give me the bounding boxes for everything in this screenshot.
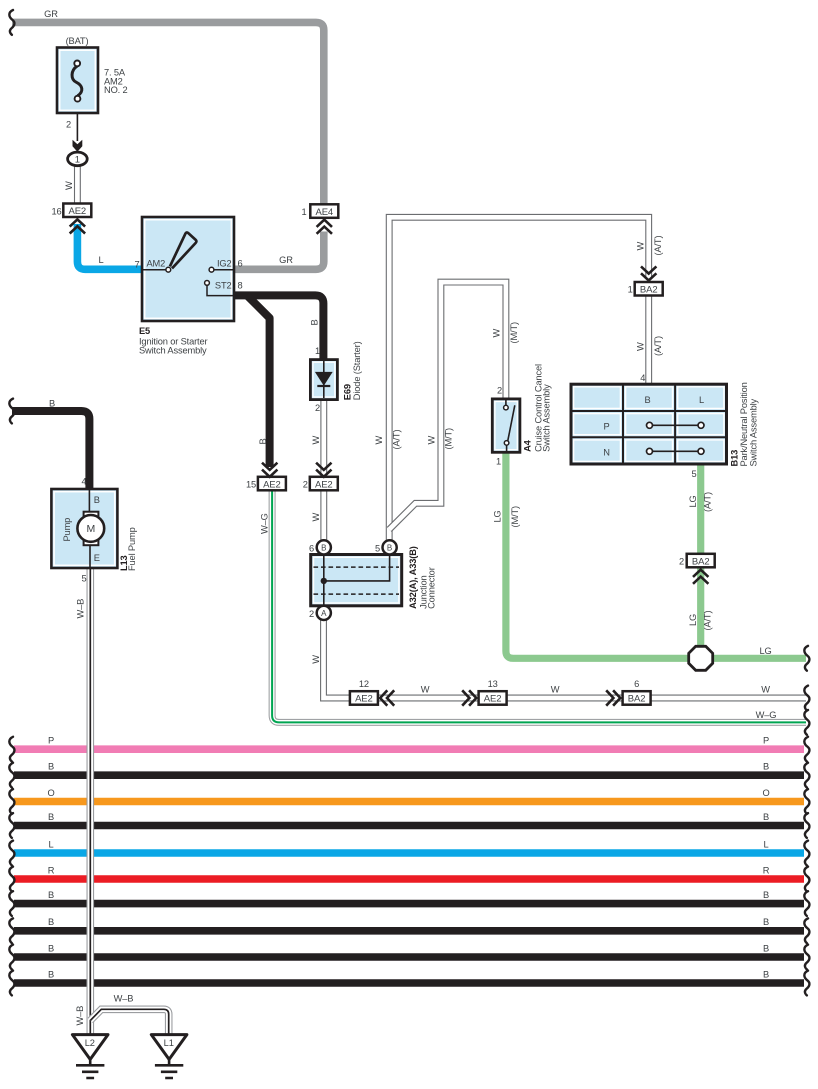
svg-text:B13: B13 <box>729 450 739 467</box>
svg-text:LG: LG <box>492 510 502 522</box>
switch A4 cruise control cancel box <box>492 399 520 452</box>
svg-text:W: W <box>761 685 770 695</box>
breaks bus B9 <box>9 945 14 970</box>
svg-text:LG: LG <box>688 495 698 507</box>
svg-text:P: P <box>603 422 609 432</box>
svg-text:1: 1 <box>301 207 306 217</box>
svg-text:15: 15 <box>246 479 256 489</box>
connector AE2 pin13 <box>479 691 507 705</box>
chevron down above AE2-15 <box>262 463 277 477</box>
svg-text:B: B <box>310 319 320 325</box>
chevron right left of BA2-6 <box>606 690 620 705</box>
wire W diode to AE2-2 <box>320 400 327 476</box>
chevron left right of AE2-12 <box>380 690 394 705</box>
chevron down above BA2-1 <box>641 266 656 280</box>
svg-text:4: 4 <box>640 373 645 383</box>
connector BA2 pin2 <box>687 554 715 568</box>
wire B thick fuel pump <box>12 411 89 490</box>
svg-text:ST2: ST2 <box>215 281 232 291</box>
svg-text:W–B: W–B <box>114 994 134 1004</box>
breaks bus R <box>9 867 14 892</box>
svg-text:BA2: BA2 <box>692 556 710 567</box>
A32 pin circle A2 <box>317 606 331 620</box>
svg-text:2: 2 <box>303 479 308 489</box>
svg-text:1: 1 <box>496 457 501 467</box>
svg-text:B: B <box>94 495 100 505</box>
bus wire O (orange) <box>14 798 804 806</box>
svg-text:(A/T): (A/T) <box>653 236 663 256</box>
junction connector A32(A) A33(B) box <box>311 555 402 606</box>
svg-text:L1: L1 <box>164 1038 174 1048</box>
wire GR from AE4 to E5 IG2 <box>234 232 324 270</box>
wire W (A/T) loop junction A32 pin5 to BA2-1 <box>389 217 649 547</box>
svg-text:B: B <box>258 438 268 444</box>
svg-text:B: B <box>48 969 54 979</box>
svg-text:W: W <box>635 242 645 251</box>
svg-text:8: 8 <box>238 281 243 291</box>
svg-text:AM2: AM2 <box>147 259 166 269</box>
svg-text:W: W <box>374 436 384 445</box>
svg-text:E5: E5 <box>139 326 150 336</box>
svg-text:O: O <box>47 788 54 798</box>
A4 switch contacts <box>505 399 507 405</box>
diode E69 box <box>310 360 337 400</box>
node 1 ellipse <box>68 152 88 166</box>
wire L (blue) AE2-16 to E5 AM2 <box>77 224 142 269</box>
wire W fuse to AE2-16 <box>74 165 81 204</box>
ground L2 triangle <box>72 1035 108 1060</box>
svg-text:5: 5 <box>691 469 696 479</box>
connector AE2 pin2 <box>310 477 338 491</box>
breaks bus B2 <box>9 763 14 788</box>
svg-text:R: R <box>48 865 55 875</box>
svg-text:W: W <box>635 342 645 351</box>
E5 ST2 contact and pin line <box>205 281 210 286</box>
svg-text:B: B <box>48 917 54 927</box>
bus wire B (black) row4 <box>14 822 804 830</box>
svg-text:O: O <box>762 788 769 798</box>
wire W-B branch to ground L1 <box>90 1009 168 1035</box>
svg-text:BA2: BA2 <box>628 694 646 705</box>
wire W (M/T) loop to A4 pin2 <box>389 282 506 529</box>
svg-text:AE4: AE4 <box>315 207 333 218</box>
svg-text:B: B <box>321 543 326 552</box>
svg-text:(A/T): (A/T) <box>653 336 663 356</box>
break LG right <box>804 646 809 671</box>
node octagon junction <box>689 646 713 670</box>
svg-text:AE2: AE2 <box>68 206 86 217</box>
svg-text:AE2: AE2 <box>355 694 373 705</box>
svg-text:6: 6 <box>309 543 314 553</box>
svg-text:2: 2 <box>497 386 502 396</box>
svg-text:W: W <box>311 513 321 522</box>
svg-text:B: B <box>763 890 769 900</box>
svg-text:2: 2 <box>679 556 684 566</box>
connector AE4 pin1 <box>310 204 338 218</box>
svg-text:A: A <box>321 609 327 618</box>
svg-text:Fuel Pump: Fuel Pump <box>127 527 137 571</box>
wire B thick E5 ST2 to diode E69 <box>234 295 323 361</box>
svg-text:Connector: Connector <box>426 567 436 609</box>
svg-text:L2: L2 <box>85 1038 95 1048</box>
A32 dashed internal rows <box>314 566 400 568</box>
svg-text:R: R <box>763 865 770 875</box>
connector AE2 pin16 <box>63 204 91 218</box>
break B fuel pump left <box>9 399 14 424</box>
L13 motor brush caps <box>84 512 99 519</box>
svg-text:Switch Assembly: Switch Assembly <box>139 346 207 356</box>
connector AE2 pin12 <box>350 691 378 705</box>
wire LG BA2-2 to octagon node <box>697 567 704 650</box>
svg-text:Pump: Pump <box>62 518 72 542</box>
svg-text:W–G: W–G <box>260 513 270 534</box>
wire GR main (top) <box>12 22 324 205</box>
svg-text:Diode (Starter): Diode (Starter) <box>352 341 362 400</box>
svg-text:P: P <box>763 736 769 746</box>
svg-text:5: 5 <box>81 574 86 584</box>
svg-text:4: 4 <box>81 477 86 487</box>
bus wire B (black) row10 <box>14 979 804 987</box>
breaks bus B8 <box>9 918 14 943</box>
svg-text:1: 1 <box>628 285 633 295</box>
wire W junction A32 pin2 to AE2-12 and bus <box>324 619 807 698</box>
breaks bus O <box>9 789 14 814</box>
svg-text:E69: E69 <box>342 384 352 400</box>
svg-text:GR: GR <box>44 9 58 19</box>
svg-text:B: B <box>48 812 54 822</box>
B13 contact row P <box>653 424 699 426</box>
connector AE2 pin15 <box>258 477 286 491</box>
svg-text:Switch Assembly: Switch Assembly <box>749 398 759 466</box>
svg-text:13: 13 <box>488 679 498 689</box>
svg-text:P: P <box>48 736 54 746</box>
svg-text:L: L <box>98 255 103 265</box>
svg-text:E: E <box>94 553 100 563</box>
svg-text:W–B: W–B <box>76 599 86 619</box>
svg-text:AE2: AE2 <box>484 694 502 705</box>
wire W-G AE2-15 to bus <box>272 490 806 722</box>
svg-text:16: 16 <box>51 207 61 217</box>
breaks bus P left right <box>9 737 14 762</box>
A32 pin circle B6 <box>317 540 331 554</box>
chevron right left of AE2-13 <box>462 690 476 705</box>
svg-text:W: W <box>421 685 430 695</box>
svg-text:6: 6 <box>238 259 243 269</box>
ground L1 triangle <box>151 1035 187 1060</box>
break W-G bus right <box>804 710 809 735</box>
svg-text:2: 2 <box>66 120 71 130</box>
svg-text:W–G: W–G <box>756 710 777 720</box>
wire W AE2-2 to junction A32 <box>320 490 327 555</box>
svg-text:W: W <box>551 685 560 695</box>
svg-text:(A/T): (A/T) <box>702 611 712 631</box>
svg-text:B: B <box>763 812 769 822</box>
svg-text:(A/T): (A/T) <box>391 430 401 450</box>
svg-text:B: B <box>763 969 769 979</box>
svg-text:1: 1 <box>315 346 320 356</box>
bus wire L (blue) <box>14 849 804 857</box>
breaks bus B7 <box>9 891 14 916</box>
svg-text:LG: LG <box>688 614 698 626</box>
breaks bus B4 <box>9 813 14 838</box>
breaks bus L <box>9 841 14 866</box>
ground L2 bars <box>76 1059 104 1078</box>
fuse AM2 NO.2 (BAT) box <box>57 48 98 114</box>
svg-text:Park/Neutral Position: Park/Neutral Position <box>739 382 749 466</box>
switch B13 park/neutral box <box>571 384 727 464</box>
bus wire B (black) row8 <box>14 927 804 935</box>
svg-text:L: L <box>48 839 53 849</box>
svg-text:Switch Assembly: Switch Assembly <box>542 384 552 452</box>
svg-text:B: B <box>48 762 54 772</box>
L13 motor circle <box>77 515 104 542</box>
L13 pin stubs <box>88 489 90 512</box>
A32 junction dot <box>321 578 327 584</box>
svg-text:IG2: IG2 <box>217 259 232 269</box>
connector BA2 pin1 <box>635 282 663 296</box>
svg-text:B: B <box>644 395 650 405</box>
bus wire B (black) row9 <box>14 953 804 961</box>
svg-text:W–B: W–B <box>75 1006 85 1026</box>
svg-text:W: W <box>311 655 321 664</box>
breaks bus B10 <box>9 971 14 996</box>
svg-text:2: 2 <box>309 609 314 619</box>
chevron up below AE4 <box>317 220 332 234</box>
wire B thick branch to AE2-15 <box>247 295 270 467</box>
svg-text:B: B <box>763 943 769 953</box>
svg-text:B: B <box>48 890 54 900</box>
svg-text:(M/T): (M/T) <box>510 506 520 528</box>
bus wire R (red) <box>14 875 804 883</box>
svg-text:5: 5 <box>375 543 380 553</box>
svg-text:AE2: AE2 <box>315 479 333 490</box>
svg-text:A32(A), A33(B): A32(A), A33(B) <box>408 546 418 609</box>
svg-text:W: W <box>492 329 502 338</box>
svg-text:NO. 2: NO. 2 <box>104 85 128 95</box>
break W bus right <box>804 686 809 711</box>
svg-text:M: M <box>86 523 95 535</box>
svg-text:1: 1 <box>75 154 80 165</box>
motor L13 fuel pump box <box>51 489 117 568</box>
svg-text:W: W <box>311 436 321 445</box>
E5 key wedge <box>170 232 197 268</box>
svg-text:B: B <box>48 943 54 953</box>
B13 contact row N <box>653 450 699 452</box>
svg-text:LG: LG <box>759 646 771 656</box>
svg-text:BA2: BA2 <box>640 285 658 296</box>
wire LG B13 pin5 to BA2-2 <box>697 464 704 554</box>
op box E5 ignition switch <box>142 217 234 321</box>
svg-text:B: B <box>763 762 769 772</box>
svg-text:2: 2 <box>315 403 320 413</box>
E5 IG2 contact and pin line <box>209 267 214 272</box>
fuse element symbol <box>72 66 82 96</box>
svg-text:B: B <box>387 543 392 552</box>
bus wire B (black) row2 <box>14 771 804 779</box>
svg-text:(M/T): (M/T) <box>444 428 454 450</box>
wire W-B fuel pump to grounds <box>87 568 95 1035</box>
wire LG octagon node to right break <box>710 655 806 662</box>
A32 pin circle B5 <box>383 540 397 554</box>
ground L1 bars <box>155 1059 183 1078</box>
bus wire P (pink) <box>14 745 804 753</box>
chevron up below AE2-16 <box>70 219 85 233</box>
svg-text:AE2: AE2 <box>263 479 281 490</box>
svg-text:GR: GR <box>279 255 293 265</box>
svg-text:(A/T): (A/T) <box>702 492 712 512</box>
svg-text:(M/T): (M/T) <box>509 322 519 344</box>
bus wire B (black) row7 <box>14 900 804 908</box>
svg-text:N: N <box>603 448 610 458</box>
svg-text:L: L <box>699 395 704 405</box>
connector BA2 pin6 <box>623 691 651 705</box>
break GR top left <box>9 10 14 35</box>
arrow male terminal below fuse <box>73 140 83 152</box>
wire LG A4 pin1 to octagon node <box>506 453 690 659</box>
svg-text:12: 12 <box>359 679 369 689</box>
chevron down above AE2-2 <box>316 463 331 477</box>
svg-text:W: W <box>427 436 437 445</box>
svg-text:6: 6 <box>634 679 639 689</box>
A32 internal bus lines <box>323 555 325 606</box>
wire fuse to arrow <box>76 111 78 141</box>
svg-text:(BAT): (BAT) <box>66 36 89 46</box>
B13 grid lines <box>571 384 727 464</box>
svg-text:B: B <box>763 917 769 927</box>
chevron up below BA2-2 <box>693 570 708 584</box>
svg-text:B: B <box>49 399 55 409</box>
wire W (A/T) BA2-1 to B13 pin4 <box>645 296 652 385</box>
svg-text:7: 7 <box>134 260 139 270</box>
E5 AM2 pin line and contact <box>142 269 166 271</box>
svg-text:L: L <box>763 839 768 849</box>
diode E69 symbol <box>323 361 325 398</box>
svg-text:A4: A4 <box>522 439 532 452</box>
svg-text:W: W <box>64 181 74 190</box>
